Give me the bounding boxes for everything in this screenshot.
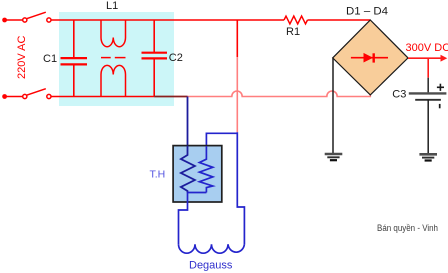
wire navy drop from bottom rail to thermistor block (187, 97, 189, 147)
wire bottom rail (switch to C2 lead) (51, 96, 154, 98)
wire joining both elements at block bottom (188, 192, 207, 194)
wire degauss tap upper (red) from top rail (236, 20, 238, 57)
wire blue degauss net: vertical from tap with jog to coil right end (237, 132, 244, 244)
wire bottom rail dark segment (C2 lead to degauss tap) (154, 96, 187, 98)
thermistor element (left zigzag, navy) (181, 146, 195, 193)
wire thermistor block to degauss coil left end (179, 193, 188, 245)
capacitor C3 (electrolytic) (409, 93, 447, 99)
polarity plus mark of C3 (437, 84, 444, 91)
wire 300V DC output with arrow (408, 57, 442, 59)
wire degauss tap lower (pink) crossing bottom rail (236, 57, 238, 132)
thermistor T.H block body (173, 146, 222, 202)
wire top rail (switch to R1) (51, 19, 284, 21)
svg-text:D1 – D4: D1 – D4 (346, 6, 388, 18)
wire to C3 plate (dark part) (427, 78, 429, 93)
svg-text:C1: C1 (43, 53, 57, 65)
resistor R1 (284, 16, 308, 24)
wire output junction down to C3 (red part) (427, 58, 429, 77)
wire top rail (R1 to bridge top vertex) (308, 19, 371, 21)
polarity minus tick of C3 (439, 104, 441, 108)
EMI filter highlight box (59, 12, 174, 106)
svg-text:C2: C2 (169, 52, 183, 64)
switch SW2 (bottom, line switch) (23, 89, 51, 99)
svg-text:Degauss: Degauss (189, 259, 233, 271)
wire from top terminal to switch (5, 19, 23, 21)
svg-text:Bán quyền - Vinh: Bán quyền - Vinh (377, 223, 438, 233)
diode symbol inside bridge (351, 53, 388, 62)
svg-text:C3: C3 (392, 89, 406, 101)
wire bridge left vertex to ground (black) (332, 58, 334, 153)
arrowhead 300V DC (441, 55, 448, 62)
bridge rectifier D1-D4 body (333, 20, 408, 95)
svg-text:L1: L1 (106, 0, 118, 12)
inductor L1 (common-mode choke) (101, 20, 126, 97)
capacitor C2 (142, 20, 168, 97)
svg-text:220V AC: 220V AC (16, 36, 28, 79)
terminal dot top input (2, 18, 7, 23)
wire C3 to ground (427, 100, 429, 154)
svg-text:300V DC: 300V DC (406, 42, 448, 54)
wire from bottom terminal to switch (5, 96, 23, 98)
ground symbol (C3 negative) (419, 154, 437, 160)
wire bottom rail pink segment with hops to bridge bottom vertex (188, 91, 371, 96)
switch SW1 (top, line switch) (23, 12, 51, 22)
heater element (right zigzag, blue) (199, 146, 212, 193)
wire blue branch to thermistor right resistor (206, 133, 237, 146)
ground symbol (bridge negative) (325, 154, 343, 160)
svg-text:T.H: T.H (150, 169, 166, 181)
terminal dot bottom input (2, 94, 7, 99)
capacitor C1 (61, 20, 88, 97)
svg-text:R1: R1 (286, 26, 300, 38)
degauss coil (179, 244, 245, 253)
